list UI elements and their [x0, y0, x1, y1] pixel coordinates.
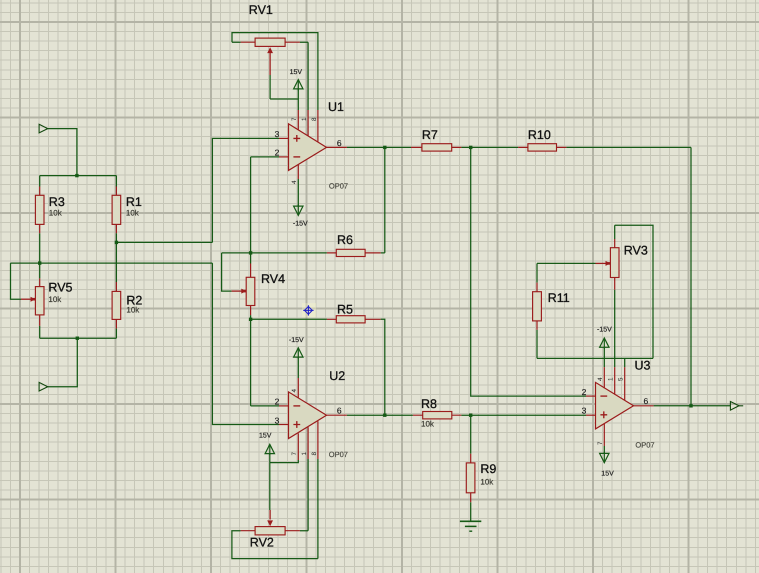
wire: R11 bottom rail to pin5 branch — [537, 330, 653, 359]
wire: U2 pin7 to 15V rail — [270, 460, 299, 463]
wire: RV2 right to U2 pin1 — [300, 459, 308, 531]
svg-text:R8: R8 — [421, 397, 437, 411]
power +15V (U3 pin7) — [603, 452, 605, 463]
wire: top input to bridge node — [47, 129, 77, 176]
wire: R5 right to U2 out junction — [381, 319, 385, 415]
U3 pin 2 — [586, 395, 596, 397]
resistor R6 — [222, 252, 327, 254]
svg-text:6: 6 — [337, 406, 342, 416]
svg-text:15V: 15V — [290, 69, 303, 76]
svg-text:R11: R11 — [548, 291, 570, 305]
svg-text:R3: R3 — [49, 195, 65, 209]
wire: R1/R2 node to U1 pin3 — [116, 138, 279, 242]
svg-text:7: 7 — [291, 117, 298, 121]
input terminal bottom — [39, 382, 48, 391]
wire: R10 right loop to U3 output — [566, 147, 691, 405]
output terminal — [730, 402, 739, 411]
svg-text:15V: 15V — [601, 471, 614, 478]
svg-text:4: 4 — [291, 389, 298, 393]
svg-text:7: 7 — [291, 452, 298, 456]
svg-text:5: 5 — [618, 377, 625, 381]
svg-text:R5: R5 — [337, 302, 353, 316]
wire: RV2 wiper column — [269, 463, 271, 510]
resistor R2 — [115, 282, 117, 329]
ground — [470, 502, 472, 521]
svg-text:3: 3 — [275, 129, 280, 139]
wire: RV2 left loop to U2 pin8 — [232, 459, 318, 559]
resistor R8 — [385, 414, 413, 416]
svg-text:1: 1 — [608, 377, 615, 381]
svg-text:2: 2 — [275, 397, 280, 407]
svg-text:4: 4 — [291, 180, 298, 184]
op-amp U1 — [289, 124, 327, 171]
potentiometer RV4 — [250, 253, 252, 264]
U2 pin 4 — [297, 378, 299, 398]
RV1 wiper arrow — [269, 52, 271, 75]
svg-text:-15V: -15V — [289, 337, 304, 344]
svg-text:15V: 15V — [259, 433, 272, 440]
svg-text:U1: U1 — [328, 100, 344, 114]
svg-text:1: 1 — [301, 117, 308, 121]
svg-text:RV2: RV2 — [250, 535, 274, 549]
svg-text:OP07: OP07 — [329, 450, 348, 459]
RV4 wiper — [222, 253, 232, 291]
origin marker highlight — [302, 303, 316, 317]
svg-text:10k: 10k — [421, 419, 435, 428]
node: U2 output junction — [383, 414, 386, 417]
potentiometer RV3 — [615, 225, 653, 358]
svg-text:U2: U2 — [329, 369, 345, 383]
wire: bridge top rail R3-R1 — [40, 175, 117, 177]
U3 pin 7 — [603, 423, 605, 446]
U2 pin 6 output — [327, 414, 347, 416]
wire: bottom node to lower input terminal — [47, 338, 77, 387]
svg-text:6: 6 — [337, 138, 342, 148]
resistor R9 — [470, 415, 472, 454]
potentiometer RV2 — [255, 527, 285, 535]
RV5 wiper arrow — [31, 297, 36, 302]
svg-text:10k: 10k — [49, 208, 63, 217]
svg-text:6: 6 — [644, 396, 649, 406]
op-amp U2 — [289, 392, 327, 439]
U3 pin 3 — [586, 414, 596, 416]
svg-text:RV5: RV5 — [48, 280, 72, 294]
svg-text:10k: 10k — [480, 477, 494, 486]
resistor R7 — [385, 146, 411, 148]
potentiometer RV1 — [232, 33, 318, 110]
U3 top pins 4 1 5 — [604, 367, 624, 400]
U2 pin 2 — [279, 405, 289, 407]
svg-text:RV4: RV4 — [261, 272, 285, 286]
node: bridge bottom junction — [76, 337, 79, 340]
U1 pin 2 — [251, 156, 279, 158]
svg-text:3: 3 — [275, 415, 280, 425]
svg-text:RV1: RV1 — [249, 3, 273, 17]
node: bridge top junction — [75, 174, 78, 177]
wire: R8 right to junction and U3 pin3 — [461, 414, 586, 416]
node: R1/R2 junction — [115, 241, 118, 244]
U1 pin 4 — [297, 165, 299, 180]
node: R3/RV5 junction — [38, 261, 41, 264]
svg-text:10k: 10k — [48, 295, 62, 304]
node: R6/RV4/U1pin2 junction — [249, 251, 252, 254]
origin marker (blue) — [303, 305, 313, 315]
input terminal top — [39, 124, 48, 133]
U2 bottom pins 7 1 8 — [298, 421, 318, 460]
wire: RV5 wiper loop — [11, 263, 22, 299]
svg-text:-15V: -15V — [597, 327, 612, 334]
svg-text:10k: 10k — [126, 208, 140, 217]
svg-text:R1: R1 — [126, 195, 142, 209]
node: U1 output junction — [383, 146, 386, 149]
wire: U2 pin2 column — [251, 319, 279, 406]
svg-text:3: 3 — [582, 405, 587, 415]
svg-text:10k: 10k — [126, 306, 140, 315]
U1 top pins 7 1 8 — [298, 110, 318, 142]
node: R7/R10 junction — [469, 146, 472, 149]
svg-text:-15V: -15V — [293, 221, 308, 228]
wire: U1 pin2 feedback column — [250, 157, 252, 253]
node: U3 output junction — [689, 404, 692, 407]
power -15V (U1 pin4) — [297, 205, 299, 216]
svg-text:8: 8 — [311, 452, 318, 456]
U2 pin 3 — [279, 424, 289, 426]
svg-text:8: 8 — [311, 117, 318, 121]
svg-text:2: 2 — [582, 387, 587, 397]
svg-text:R9: R9 — [480, 462, 496, 476]
U1 pin 6 output — [327, 146, 347, 148]
svg-text:7: 7 — [597, 441, 604, 445]
svg-text:4: 4 — [597, 377, 604, 381]
wire: R1 bottom / R2 top column — [115, 233, 117, 282]
resistor R10 — [518, 146, 566, 148]
svg-text:OP07: OP07 — [635, 441, 654, 450]
wire: U1 out down to R6 row — [381, 147, 385, 253]
node: R5/RV4/U2pin2 junction — [249, 318, 252, 321]
wire: junction down to U3 pin2 — [471, 147, 586, 396]
resistor R3 — [39, 187, 41, 234]
op-amp U3 — [596, 382, 634, 429]
svg-text:R7: R7 — [422, 128, 438, 142]
node: R8/R9 junction — [469, 414, 472, 417]
wire: bridge bottom rail — [40, 326, 117, 338]
svg-text:1: 1 — [301, 452, 308, 456]
wire: R3 bottom to node — [39, 233, 41, 263]
svg-text:2: 2 — [275, 148, 280, 158]
RV3 wiper — [537, 262, 596, 264]
resistor R1 — [115, 187, 117, 234]
svg-text:R6: R6 — [337, 233, 353, 247]
svg-text:U3: U3 — [635, 358, 651, 372]
svg-text:RV3: RV3 — [624, 244, 648, 258]
wire: RV3 bottom to U3 pin1 — [614, 290, 616, 367]
potentiometer RV5 — [39, 278, 41, 326]
resistor R5 — [251, 318, 327, 320]
RV2 wiper arrow — [267, 520, 273, 526]
U1 pin 3 — [279, 137, 289, 139]
resistor R11 — [536, 263, 538, 282]
U3 pin 6 output — [634, 405, 654, 407]
svg-text:OP07: OP07 — [329, 182, 348, 191]
wire: bridge mid rail y263 to U2 pin3 column — [11, 262, 213, 264]
svg-text:R10: R10 — [528, 128, 551, 142]
